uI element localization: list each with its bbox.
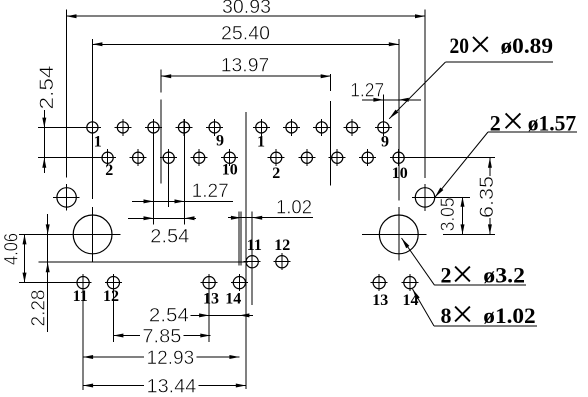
dim 7.85 [113, 334, 210, 338]
dim 1.27 pin9-pin10 top right [362, 98, 421, 102]
svg-text:13.44: 13.44 [147, 377, 197, 397]
pin hole top row L4 [176, 119, 193, 136]
pin hole bottom row R4 [359, 149, 376, 166]
svg-text:12: 12 [274, 237, 290, 254]
svg-text:12.93: 12.93 [147, 348, 195, 369]
svg-text:1.27: 1.27 [350, 80, 384, 101]
svg-text:ø3.2: ø3.2 [483, 263, 525, 288]
svg-text:2.54: 2.54 [150, 227, 189, 248]
svg-text:3.05: 3.05 [438, 197, 459, 231]
svg-text:25.40: 25.40 [221, 23, 270, 44]
pin hole top row L2 [114, 119, 131, 136]
svg-text:2: 2 [272, 165, 280, 182]
svg-text:14: 14 [225, 291, 241, 308]
svg-text:30.93: 30.93 [222, 0, 271, 18]
svg-text:2: 2 [105, 162, 113, 179]
mounting circle dia3.2 left [19, 207, 120, 262]
dim 13.97 [161, 74, 331, 78]
svg-text:ø1.57: ø1.57 [528, 110, 577, 135]
ext line pin3 bottom column [168, 149, 170, 207]
dim 2.54 pins 13-14 [191, 313, 254, 317]
svg-text:10: 10 [392, 165, 408, 182]
svg-text:11: 11 [247, 237, 262, 254]
pin hole top row R4 [344, 119, 361, 136]
ext line pin row 11-14 left [19, 282, 92, 284]
pin hole 11 left [75, 274, 92, 291]
ext line pin12 left column [112, 291, 114, 342]
svg-text:ø1.02: ø1.02 [483, 303, 535, 328]
pin hole bottom row L3 [160, 149, 177, 166]
leader + note 8x dia1.02 [413, 289, 538, 326]
dim 13.44 [83, 384, 246, 388]
dim 6.35 [488, 158, 492, 235]
ext line row1 left [38, 127, 84, 129]
svg-text:2.54: 2.54 [149, 305, 189, 326]
ext line 13.97 right upper [330, 74, 332, 91]
svg-text:9: 9 [216, 133, 224, 150]
ext line 25.40 right / pin10 column [398, 39, 400, 201]
ext line 13.97 left upper [160, 70, 162, 93]
mounting hole dia1.57 left [53, 184, 79, 211]
pin hole bottom row L1 [99, 149, 116, 166]
pin hole bottom row R1 [268, 149, 285, 166]
pin hole 12 left [105, 274, 122, 291]
pin hole 13 right [371, 274, 388, 291]
ext line pin11R column [251, 212, 253, 306]
leader + note 2x dia1.57 [435, 132, 577, 197]
svg-text:1: 1 [257, 133, 265, 150]
svg-text:2: 2 [441, 263, 452, 288]
svg-text:13: 13 [372, 292, 388, 309]
pin hole bottom row L4 [191, 149, 208, 166]
svg-text:1.02: 1.02 [276, 197, 312, 218]
svg-text:7.85: 7.85 [142, 327, 181, 348]
reference line y262 [39, 261, 249, 263]
dim 1.27 column offset [132, 199, 233, 203]
leader + note 20x dia0.89 [389, 62, 553, 119]
ext line pin10 row right [390, 157, 495, 159]
ext line 13.97 left lower / connector1 centerline [160, 100, 162, 184]
ext line pin4 top column [184, 119, 186, 225]
svg-text:2.54: 2.54 [37, 65, 58, 110]
svg-text:8: 8 [441, 303, 452, 328]
ext line 30.93 left [66, 10, 68, 178]
svg-text:1.27: 1.27 [192, 181, 229, 202]
pin hole bottom row L2 [130, 149, 147, 166]
leader + note 2x dia3.2 [402, 238, 527, 285]
pin hole bottom row L5 [221, 149, 238, 166]
mounting hole dia1.57 right [412, 184, 470, 211]
ext line 25.40 left / pin1 column [91, 39, 93, 199]
ext line pin13 left column [208, 291, 210, 342]
svg-text:ø0.89: ø0.89 [501, 33, 554, 58]
svg-text:13.97: 13.97 [221, 55, 270, 76]
pin hole bottom row R5 [390, 149, 407, 166]
pin hole top row R5 [375, 119, 392, 136]
svg-text:2: 2 [490, 110, 501, 135]
connector gap centerline [245, 112, 247, 389]
ext line 30.93 right [424, 10, 426, 178]
dim 30.93 overall width [67, 14, 426, 18]
dim 1.02 gap between connectors [228, 216, 313, 220]
pin hole top row L1 [84, 119, 101, 136]
pin hole top row R3 [313, 119, 330, 136]
pin hole top row L5 [206, 119, 223, 136]
svg-text:1: 1 [94, 133, 102, 150]
ext line 1.02 left / aux near gap [240, 212, 242, 266]
ext line pin3 top column [153, 119, 155, 225]
pin hole bottom row R3 [329, 149, 346, 166]
dim 3.05 [461, 197, 465, 235]
dim 2.54 pin pitch [128, 216, 196, 220]
pin hole 11 right [244, 253, 261, 270]
svg-text:2.28: 2.28 [28, 290, 49, 327]
pin hole top row R2 [283, 119, 300, 136]
ext line 13.97 right lower / connector2 centerline [330, 101, 332, 185]
svg-text:10: 10 [222, 162, 238, 179]
svg-text:13: 13 [203, 291, 219, 308]
pin hole 13 left [201, 274, 218, 291]
pin hole 12 right [273, 253, 290, 270]
pin hole top row R1 [253, 119, 270, 136]
svg-text:6.35: 6.35 [477, 176, 498, 218]
pin hole 14 right [401, 274, 418, 291]
mounting circle dia3.2 right [362, 207, 495, 261]
pin hole top row L3 [145, 119, 162, 136]
svg-text:4.06: 4.06 [1, 233, 22, 265]
dim 4.06 [23, 234, 27, 282]
ext line pin14L column upper [238, 212, 240, 266]
dim 2.28 [46, 214, 50, 332]
dim 12.93 [83, 355, 239, 359]
svg-text:12: 12 [103, 288, 119, 305]
svg-text:11: 11 [73, 288, 88, 305]
pin hole 14 left [231, 274, 248, 291]
ext line pin11 left column [82, 291, 84, 390]
ext line row2 left [38, 157, 99, 159]
svg-text:9: 9 [381, 134, 389, 151]
dim 2.54 row spacing left [42, 110, 46, 173]
svg-text:20: 20 [450, 33, 470, 58]
ext line 1.27 pin9 column [382, 95, 384, 120]
dim 25.40 [92, 42, 398, 46]
pin hole bottom row R2 [298, 149, 315, 166]
